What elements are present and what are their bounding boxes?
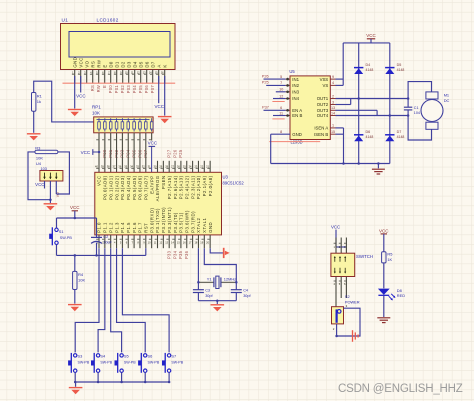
svg-text:D4: D4 [132,61,137,68]
svg-text:A: A [156,64,161,67]
svg-text:P0.1(AD1): P0.1(AD1) [108,175,113,200]
svg-text:RS: RS [90,61,95,68]
driver right pin 3 [330,100,335,104]
svg-text:U1: U1 [62,17,69,22]
svg-text:ISEN B: ISEN B [314,132,328,137]
wire VSS to VCC rail [336,43,344,86]
svg-text:IN4: IN4 [292,96,299,101]
svg-text:P36: P36 [184,250,189,259]
svg-text:VCC: VCC [76,93,86,98]
svg-text:12: 12 [279,94,283,98]
power port VCC at MCU pin40 [81,149,101,155]
driver pin 11 wire [273,111,290,116]
driver GND pin 8 wire [271,130,290,164]
wire OUT4 to motor [336,114,410,117]
svg-text:SW-PB: SW-PB [100,360,112,364]
switch bottom pins [334,277,347,307]
svg-text:VO: VO [56,192,60,197]
ground R4 [68,305,82,312]
svg-text:D8: D8 [397,288,402,293]
wire driver bottom rail [271,162,390,168]
svg-text:VCC: VCC [78,57,83,67]
svg-text:D1: D1 [114,61,119,68]
svg-text:U4: U4 [36,161,42,166]
svg-text:89C51/C52: 89C51/C52 [223,180,245,185]
svg-text:P03: P03 [126,85,131,94]
svg-text:OUT4: OUT4 [317,113,329,118]
push button S7 SW-PB [162,353,184,382]
svg-text:VSS: VSS [320,77,329,82]
capacitor C2 10uF polarized [91,234,112,245]
svg-text:IN2: IN2 [292,83,299,88]
LCD pins 1-16 [72,70,165,84]
svg-text:E: E [102,64,107,67]
svg-text:P05: P05 [138,85,143,94]
diode D5 4148 [385,63,404,74]
svg-text:VCC: VCC [70,205,80,210]
svg-text:VCC: VCC [379,228,389,233]
wire R1 top to RP1 [34,81,94,122]
svg-text:4148: 4148 [397,135,405,139]
wire R1 bottom [33,111,35,133]
svg-text:11: 11 [279,111,283,115]
svg-text:P2.0(A8): P2.0(A8) [208,175,213,196]
svg-text:GND: GND [292,132,302,137]
driver right pin 13 [330,106,335,110]
svg-text:P3.3(INT1): P3.3(INT1) [167,207,172,233]
resistor R5 1K [382,252,393,289]
svg-text:C2: C2 [103,234,108,239]
capacitor C4 30pf [231,288,252,298]
svg-text:P2.2(A10): P2.2(A10) [196,175,201,199]
ground crystal [211,305,225,312]
svg-text:RST: RST [144,223,149,233]
wire reset top rail [57,217,97,237]
svg-text:P3.7(RD): P3.7(RD) [190,211,195,233]
svg-text:P34: P34 [172,250,177,259]
svg-text:30pf: 30pf [243,294,251,298]
svg-text:XTAL2: XTAL2 [196,217,201,232]
wire diode column right [389,43,391,164]
svg-text:VCC: VCC [97,175,102,186]
red net labels under LCD pins [90,85,155,94]
push button S3 SW-PB [68,353,90,382]
resistor R4 10K [73,255,86,303]
svg-text:VO: VO [84,60,89,67]
svg-text:104: 104 [414,111,420,115]
svg-text:D6: D6 [366,130,371,134]
MCU top pins 21-40 [95,161,210,173]
driver pin 5 wire [264,75,291,80]
svg-text:RW: RW [96,59,101,67]
svg-text:30pf: 30pf [205,294,213,298]
motor driver U5 L293D [289,69,330,139]
wire P1.2 to button S5 [111,248,122,352]
svg-text:VCC: VCC [81,150,91,155]
pot pin3 wire [55,181,57,194]
bright red power arrow at GND [224,248,230,258]
driver right pin 2 [330,94,335,98]
push button S4 SW-PB [91,353,113,382]
driver pin 7 wire [266,81,290,87]
svg-text:P3.5(T1): P3.5(T1) [179,212,184,233]
svg-text:VCC: VCC [331,225,340,230]
svg-text:P0.0(AD0): P0.0(AD0) [103,175,108,200]
svg-text:P0.4(AD4): P0.4(AD4) [126,175,131,200]
push button S6 SW-PB [138,353,160,382]
wire LCD pin2 VCC [76,76,86,98]
power port VCC reset [70,205,80,218]
svg-text:1: 1 [332,124,334,128]
diode D4 4148 [354,63,373,74]
svg-text:D6: D6 [144,61,149,68]
svg-text:P1.2: P1.2 [108,222,113,233]
salmon line under EN B [272,118,284,120]
driver pin 6 wire [264,106,291,112]
svg-text:14: 14 [331,111,335,115]
svg-text:CSDN @ENGLISH_HHZ: CSDN @ENGLISH_HHZ [338,383,463,395]
svg-text:P2.4(A12): P2.4(A12) [184,175,189,199]
red net labels P00-P07 under RP1 [102,149,148,158]
switch S1 SW-PB [49,227,72,245]
svg-text:4148: 4148 [397,68,405,72]
wire MCU GND pin [210,248,223,253]
svg-text:M1: M1 [444,93,449,98]
svg-text:P25: P25 [178,149,183,158]
svg-text:10K: 10K [92,110,100,115]
driver right pin 9 [330,75,335,79]
svg-text:EA/VPP: EA/VPP [149,175,154,194]
driver pin 12 wire [273,94,290,99]
svg-text:Y1: Y1 [207,276,212,281]
svg-text:P07: P07 [150,85,155,94]
svg-text:1k: 1k [37,99,41,104]
svg-text:S3: S3 [78,354,83,359]
svg-text:EN B: EN B [292,113,302,118]
svg-text:1K: 1K [387,257,392,262]
svg-text:2: 2 [332,94,334,98]
svg-text:D3: D3 [126,61,131,68]
svg-text:OUT2: OUT2 [317,102,329,107]
wire ISEN A [336,128,344,164]
RP1 pins with ticks [96,133,151,141]
svg-text:P0.5(AD5): P0.5(AD5) [132,175,137,200]
svg-text:RS: RS [90,85,95,91]
resistor R3 [35,145,58,153]
svg-text:P0.2(AD2): P0.2(AD2) [114,175,119,200]
diode D6 4148 [354,130,373,141]
svg-text:10K: 10K [36,155,43,160]
svg-text:D7: D7 [397,130,402,134]
ground LCD pin1 [68,110,82,117]
pot pin2 to ground [49,181,51,203]
svg-text:13: 13 [331,106,335,110]
svg-text:P3.0(RXD): P3.0(RXD) [149,208,154,233]
svg-text:E: E [102,85,107,88]
wire OUT3 [336,110,378,115]
driver right pin 4 [330,81,335,85]
potentiometer U4 [40,171,63,182]
wires RP1 to MCU port0 [99,141,146,173]
svg-text:SW-PB: SW-PB [148,360,160,364]
svg-text:P0.7(AD7): P0.7(AD7) [144,175,149,200]
svg-text:S1: S1 [59,229,64,234]
svg-text:P01: P01 [114,85,119,94]
svg-text:R3: R3 [35,145,41,150]
svg-text:9: 9 [332,75,334,79]
svg-text:P1.3: P1.3 [114,222,119,233]
svg-text:U3: U3 [223,175,229,180]
driver right pin 14 [330,111,335,115]
resistor pack RP1 10K [92,105,153,133]
svg-text:10K: 10K [78,277,85,282]
svg-text:D2: D2 [120,61,125,68]
svg-text:K: K [162,64,167,67]
wire OUT1 to motor [336,97,410,100]
ground pot [44,204,58,211]
ground power switch rotated [353,330,359,342]
svg-text:S6: S6 [148,354,153,359]
red net labels P33-P36 below MCU [167,250,190,259]
svg-text:10uF: 10uF [103,241,112,245]
driver right pin 15 [330,130,335,134]
svg-text:C4: C4 [243,288,248,292]
svg-text:SW-PB: SW-PB [124,360,136,364]
svg-text:D0: D0 [108,61,113,68]
svg-text:D5: D5 [138,61,143,68]
wire ISEN B [336,133,344,135]
wire XTAL2 [197,248,199,301]
wire XTAL1 [204,248,236,301]
motor M1 DC [408,82,449,140]
svg-text:P00: P00 [108,85,113,94]
wire P1.0 to button S3 [75,248,99,352]
svg-text:D7: D7 [150,61,155,68]
svg-text:P1.1: P1.1 [103,222,108,233]
svg-text:OUT1: OUT1 [317,96,329,101]
wire crystal bottom rail [198,299,236,304]
svg-text:SW-PB: SW-PB [60,236,73,240]
wire R3 left loop [28,152,52,201]
svg-text:ALE/PROG: ALE/PROG [155,175,160,201]
svg-text:P3.2(INT0): P3.2(INT0) [161,207,166,233]
svg-text:8: 8 [280,130,282,134]
svg-text:P1.4: P1.4 [120,222,125,233]
svg-text:S7: S7 [171,354,176,359]
svg-text:P2.6(A14): P2.6(A14) [173,175,178,199]
svg-text:C1: C1 [414,106,419,110]
wire switch top rail [334,238,347,254]
svg-text:4148: 4148 [366,68,374,72]
svg-text:S5: S5 [124,354,129,359]
power port VCC motor supply [366,33,376,43]
switch block S-DIP SWITCH [331,253,373,276]
svg-text:R5: R5 [387,252,392,257]
svg-text:S2: S2 [345,294,350,299]
net label VCC switch [331,225,340,247]
svg-text:P0.6(AD6): P0.6(AD6) [138,175,143,200]
ground LCD pin16 [158,117,172,124]
svg-text:P26: P26 [262,73,269,78]
svg-text:R4: R4 [78,272,84,277]
svg-text:P2.5(A13): P2.5(A13) [179,175,184,199]
resistor R1 [32,93,43,112]
svg-text:DC: DC [444,98,450,103]
ground LED [377,318,390,323]
svg-text:SW-PB: SW-PB [171,360,183,364]
svg-text:4148: 4148 [366,135,374,139]
pot labels [36,155,47,171]
wire LCD pin15 VCC [155,76,165,109]
svg-text:SWITCH: SWITCH [356,254,373,259]
svg-text:P1.5: P1.5 [126,222,131,233]
svg-text:P0.3(AD3): P0.3(AD3) [120,175,125,200]
svg-text:VCC: VCC [35,182,44,187]
wire LCD pin1 to ground [74,76,76,109]
capacitor C1 104 [404,106,420,115]
svg-text:P26: P26 [172,149,177,158]
wire buttons bottom rail [74,381,170,387]
wire VCC top rail [343,42,390,44]
ground R1 [27,134,41,141]
svg-text:7: 7 [280,81,282,85]
svg-text:P37: P37 [262,105,269,110]
power switch S2 POWER [332,294,360,324]
wire reset bottom rail to RST [57,243,146,257]
power port VCC led [379,228,389,252]
LED D8 RED [378,288,405,317]
red net labels P27 P26 P25 above MCU [167,149,184,158]
svg-text:P1.7: P1.7 [138,222,143,233]
svg-text:C3: C3 [205,288,210,292]
svg-text:P2.1(A9): P2.1(A9) [202,175,207,196]
svg-text:PSEN: PSEN [161,175,166,189]
capacitor C3 30pf [193,288,214,298]
svg-text:VCC: VCC [148,141,158,146]
svg-text:P27: P27 [167,149,172,158]
svg-text:P35: P35 [178,250,183,259]
svg-text:RW: RW [96,85,101,92]
svg-text:10: 10 [279,88,283,92]
svg-text:P1.6: P1.6 [132,222,137,233]
LCD module U1 [0,0,1,1]
svg-text:P06: P06 [144,85,149,94]
svg-text:RP1: RP1 [92,105,101,110]
svg-text:D5: D5 [397,63,402,67]
wire R3 right loop [56,152,69,194]
svg-text:VCC: VCC [155,104,165,109]
wire P1.3 to button S6 [117,248,146,352]
power port VCC at EA pin [148,141,158,173]
svg-text:RED: RED [397,293,405,298]
svg-text:IN3: IN3 [292,90,299,95]
svg-text:5: 5 [280,75,282,79]
svg-text:P2.7(A15): P2.7(A15) [167,175,172,199]
svg-text:LCD1602: LCD1602 [97,17,119,22]
svg-text:GND: GND [208,222,213,233]
svg-text:P33: P33 [167,250,172,259]
wire LCD pin16 to ground [164,76,166,116]
push button S5 SW-PB [115,353,137,382]
svg-text:P04: P04 [132,85,137,94]
svg-text:SW-PB: SW-PB [78,360,90,364]
svg-text:3: 3 [332,100,334,104]
wire P1.4 to button S7 [122,248,169,352]
ground buttons [69,388,83,395]
svg-text:ISEN A: ISEN A [314,126,328,131]
svg-text:P3.4(T0): P3.4(T0) [173,212,178,233]
svg-text:VS: VS [322,83,328,88]
svg-text:12MHz: 12MHz [224,276,236,281]
ground motor supply [372,169,385,174]
svg-text:D4: D4 [366,63,371,67]
svg-text:GND: GND [72,57,77,68]
svg-text:P3.6(WR): P3.6(WR) [184,210,189,233]
pot pin1 to VCC [35,181,44,189]
salmon line under IN4 [272,101,284,103]
salmon line under driver [269,141,320,143]
svg-text:P02: P02 [120,85,125,94]
svg-text:P25: P25 [262,80,269,85]
crystal Y1 12MHz [197,276,237,288]
wire P1.1 to button S4 [98,248,105,352]
svg-text:P3.1(TXD): P3.1(TXD) [155,208,160,233]
driver pin 10 wire [276,88,290,94]
microcontroller U3 89C51/C52 [95,172,245,235]
MCU bottom pins 1-20 [96,235,210,248]
diode D7 4148 [385,130,404,141]
wire power switch loop [333,304,360,337]
svg-text:6: 6 [280,106,282,110]
svg-text:IN1: IN1 [292,77,299,82]
svg-text:VCC: VCC [366,33,376,38]
svg-text:4: 4 [332,81,334,85]
driver right pin 1 [330,124,335,128]
svg-text:P1.0: P1.0 [97,222,102,233]
svg-text:U5: U5 [289,69,295,74]
svg-text:15: 15 [331,130,335,134]
svg-text:S4: S4 [100,354,106,359]
red line under LCD [63,82,176,84]
svg-text:XTAL1: XTAL1 [202,217,207,232]
wire VS [336,84,344,86]
svg-text:P2.3(A11): P2.3(A11) [190,175,195,199]
wire diode column left [358,43,360,164]
wire OUT2 [336,99,351,105]
